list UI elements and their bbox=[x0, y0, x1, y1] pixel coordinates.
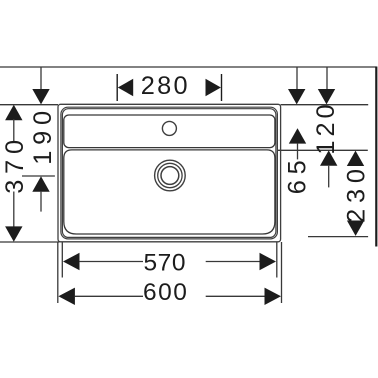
dimension 120 bottom stem bbox=[328, 166, 330, 188]
dimension 280 right arrow bbox=[206, 79, 221, 96]
wire ledge right extension bbox=[278, 149, 368, 151]
faucet hole bbox=[162, 121, 176, 135]
svg-text:65: 65 bbox=[284, 155, 312, 195]
dimension 190 top stem bbox=[40, 67, 42, 91]
dimension 570 line right bbox=[206, 261, 260, 263]
dimension 190 bottom stem bbox=[40, 192, 42, 212]
svg-text:190: 190 bbox=[29, 105, 57, 165]
svg-text:570: 570 bbox=[143, 249, 186, 276]
wire 600 left vertical extension bbox=[57, 242, 59, 303]
basin bowl bbox=[64, 150, 275, 234]
dimension 65 top arrow bbox=[288, 89, 305, 104]
wire drain extension bbox=[22, 175, 55, 177]
basin rim line outer bbox=[61, 107, 278, 239]
svg-text:280: 280 bbox=[141, 72, 190, 100]
wire right top extension bbox=[281, 104, 369, 106]
wire right vertical edge line bbox=[375, 67, 377, 247]
basin rim line inner bbox=[62, 109, 276, 238]
dimension 370 line lower bbox=[13, 192, 15, 228]
dimension 370 line upper bbox=[13, 119, 15, 142]
wire top connector line bbox=[0, 66, 376, 68]
dimension 570 right arrow bbox=[260, 253, 277, 270]
dimension 120 top stem bbox=[326, 67, 328, 91]
dimension 570 left arrow bbox=[63, 253, 80, 270]
dimension 600 right arrow bbox=[265, 288, 282, 305]
dimension 190 bottom arrow bbox=[32, 176, 49, 191]
dimension 600 line right bbox=[206, 295, 265, 297]
dimension 570 line left bbox=[79, 261, 143, 263]
dimension 280 right tick bbox=[221, 74, 223, 101]
basin outer rim bbox=[58, 104, 281, 242]
dimension 65 bottom arrow bbox=[289, 128, 306, 143]
dimension 280 left arrow bbox=[118, 79, 133, 96]
dimension 120 bottom arrow bbox=[320, 150, 337, 165]
drain inner circle bbox=[161, 167, 179, 185]
dimension 65 top stem bbox=[296, 67, 298, 91]
dimension 230 bottom arrow bbox=[347, 221, 364, 236]
drain middle circle bbox=[158, 163, 182, 187]
wire 570 right vertical extension bbox=[276, 242, 278, 278]
dimension 600 line left bbox=[75, 295, 144, 297]
wire left top extension bbox=[0, 104, 58, 106]
dimension 65 bottom stem bbox=[297, 144, 299, 160]
dimension 190 top arrow bbox=[32, 89, 49, 104]
dimension 370 bottom arrow bbox=[5, 226, 22, 241]
dimension 280 left tick bbox=[116, 74, 118, 101]
dimension 370 top arrow bbox=[5, 105, 22, 120]
wire 600 right vertical extension bbox=[281, 242, 283, 303]
svg-text:230: 230 bbox=[343, 163, 371, 223]
drain outer circle bbox=[155, 160, 186, 191]
basin deck bbox=[64, 115, 275, 148]
wire 570 left vertical extension bbox=[61, 242, 63, 278]
dimension 600 left arrow bbox=[58, 288, 75, 305]
svg-text:120: 120 bbox=[312, 100, 340, 154]
wire right bottom extension bbox=[308, 236, 368, 238]
dimension 120 top arrow bbox=[318, 89, 335, 104]
wire left bottom extension bbox=[0, 241, 59, 243]
svg-text:600: 600 bbox=[143, 279, 188, 306]
svg-text:370: 370 bbox=[1, 134, 29, 194]
dimension 230 top arrow bbox=[347, 151, 364, 166]
